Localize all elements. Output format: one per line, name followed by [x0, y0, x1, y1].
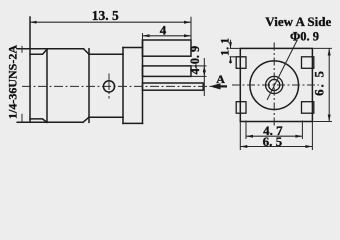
arrowhead 4.7 left	[246, 135, 253, 138]
dim 6.5 bottom extensions	[239, 122, 241, 151]
wire: barrel top edge	[30, 49, 47, 54]
dim 1.1 line	[230, 40, 232, 49]
wire: barrel bottom edge	[30, 119, 47, 122]
svg-text:4: 4	[160, 22, 167, 37]
dim 13.5 line	[30, 21, 191, 23]
svg-text:6. 5: 6. 5	[312, 69, 327, 96]
svg-text:13. 5: 13. 5	[92, 8, 119, 23]
dim 13.5 right extension / leg end	[190, 17, 192, 57]
node: shoulder right face	[142, 40, 144, 123]
center line vertical of flange	[273, 43, 275, 128]
svg-text:6. 5: 6. 5	[263, 134, 283, 149]
leg tab upper-left	[236, 57, 246, 69]
arrowhead 4-0.9 top	[203, 66, 206, 72]
wire: shoulder bottom edge	[123, 122, 143, 124]
arrowhead 6.5 bottom left	[240, 145, 247, 148]
hole circle on body	[103, 81, 114, 92]
svg-text:1/4-36UNS-2A: 1/4-36UNS-2A	[5, 45, 19, 119]
dim 4 left extension	[142, 33, 144, 40]
flange square	[240, 48, 312, 121]
wire: body top edge	[89, 53, 123, 55]
dim 4.7 extensions	[245, 121, 247, 140]
thread label end tick top	[21, 46, 23, 53]
center line horizontal of flange	[232, 84, 319, 86]
view arrow A	[210, 83, 228, 89]
svg-text:4-0. 9: 4-0. 9	[188, 46, 202, 74]
arrowhead 4.7 right	[295, 135, 302, 138]
leg tab upper-right	[302, 57, 314, 69]
arrowhead 6.5 right bottom	[328, 115, 331, 122]
leg tab lower-left	[236, 102, 246, 114]
center axis dash-dot	[22, 85, 211, 87]
arrowhead 6.5 right top	[328, 48, 331, 55]
thread label end tick bottom	[21, 114, 23, 122]
wire: outer top line of nut with label extension	[17, 48, 83, 50]
node: barrel front face / left edge	[29, 17, 31, 122]
wire: nut rear chamfer top	[84, 49, 90, 54]
pin hole 0.9	[269, 79, 280, 90]
flange circle	[250, 61, 299, 110]
wire: body bottom edge	[89, 116, 123, 118]
arrowhead 1.1 bottom	[229, 57, 232, 63]
svg-text:A: A	[216, 72, 225, 86]
svg-text:Φ0. 9: Φ0. 9	[290, 29, 319, 43]
leg F2 middle	[143, 66, 192, 77]
arrowhead 4 right	[184, 34, 191, 37]
dim 1.1 extension lower	[230, 56, 247, 58]
pin insulator ring	[266, 76, 283, 93]
dim 4 line	[143, 35, 192, 37]
wire: outer bottom line of nut with label extension	[17, 121, 83, 123]
dim 4-0.9 extension top	[191, 65, 207, 67]
dim 6.5 bottom line	[240, 146, 312, 148]
arrowhead 13.5 left	[30, 21, 37, 24]
svg-text:1. 1: 1. 1	[218, 38, 232, 56]
node: hex nut front face	[46, 49, 48, 123]
hole vertical center line	[108, 74, 110, 99]
wire: nut rear chamfer bottom	[83, 117, 89, 122]
leg tab lower-right	[302, 102, 314, 114]
dim 4-0.9 extension bottom	[191, 75, 207, 77]
arrowhead 1.1 top	[229, 42, 232, 48]
dim 4-0.9 line	[203, 58, 205, 96]
arrowhead 4-0.9 bottom	[203, 70, 206, 76]
dim 1.1 extension upper	[230, 47, 241, 49]
arrowhead 13.5 right	[184, 21, 191, 24]
node: shoulder left face	[122, 48, 124, 124]
wire: shoulder top edge	[123, 47, 143, 49]
dim 6.5 right line	[328, 48, 330, 121]
leg F1 top	[143, 40, 192, 56]
dim 6.5 right extensions	[313, 47, 332, 49]
svg-text:View A Side: View A Side	[265, 14, 331, 29]
dim 4.7 line	[246, 135, 302, 137]
pin center contact	[143, 83, 204, 90]
node: nut rear face	[88, 49, 90, 123]
arrowhead 6.5 bottom right	[305, 145, 312, 148]
arrowhead 4 left	[143, 34, 150, 37]
leader line phi0.9	[267, 40, 297, 100]
